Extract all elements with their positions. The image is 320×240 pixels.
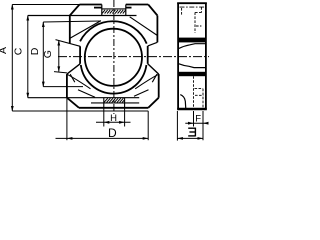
- dimension G line: [58, 41, 60, 72]
- left notch vertex stub: [70, 74, 75, 82]
- side view top dash-dot line: [180, 6, 206, 8]
- svg-text:F: F: [195, 114, 201, 125]
- side view bottom edge: [177, 108, 207, 110]
- svg-text:D: D: [108, 126, 117, 140]
- top slot plug ledge left: [94, 7, 102, 9]
- dimension D line: [42, 22, 44, 87]
- arrow D top: [42, 22, 45, 28]
- horizontal centerline: [58, 56, 209, 58]
- side view hidden slot bottom horizontal: [195, 88, 203, 90]
- bottom slot left wall: [103, 98, 105, 108]
- side view hidden slot top right vertical: [200, 7, 202, 13]
- arrow G bottom: [57, 66, 60, 72]
- bottom width arrow right: [143, 137, 149, 140]
- inner corner line bottom-left: [67, 74, 91, 89]
- top slot plug top: [102, 8, 126, 10]
- housing outline top flat right: [126, 4, 148, 6]
- side view hidden slot bottom left vertical: [193, 76, 195, 108]
- body top line with C top connector: [28, 15, 137, 17]
- dimension C line: [27, 16, 29, 98]
- bottom slot right wall: [124, 98, 126, 108]
- side view hidden slot top vertical: [194, 12, 196, 33]
- right notch diagonal: [148, 64, 159, 74]
- side view right edge: [205, 3, 207, 110]
- F arrow right: [203, 122, 209, 125]
- right notch vertex stub: [152, 74, 157, 82]
- left edge upper: [69, 16, 71, 44]
- right edge lower: [158, 74, 160, 98]
- left notch wall: [79, 46, 81, 64]
- side view upper band: [178, 38, 206, 43]
- svg-text:G: G: [42, 50, 54, 58]
- svg-text:A: A: [0, 47, 9, 54]
- bottom width extension right: [147, 111, 149, 140]
- H arrow right: [119, 121, 125, 124]
- label side width glyph: [188, 128, 195, 137]
- svg-text:H: H: [110, 113, 117, 124]
- right notch step: [148, 42, 158, 46]
- bottom-left chamfer: [67, 98, 79, 108]
- right notch wall: [147, 46, 149, 64]
- bottom slot hatch: [104, 98, 125, 102]
- bottom boss ledge: [91, 102, 139, 104]
- inner corner line bottom-right second: [134, 90, 149, 97]
- arrow D bottom: [42, 82, 45, 88]
- right edge upper: [156, 16, 158, 43]
- top-left chamfer: [70, 5, 80, 16]
- bottom width arrow left: [67, 137, 73, 140]
- vertical centerline: [113, 0, 115, 114]
- insert outer sphere arc lower: [81, 65, 147, 94]
- bottom width extension left: [66, 98, 68, 141]
- side view hidden tick: [196, 25, 201, 27]
- H dimension line: [96, 121, 131, 123]
- inner corner line top-left: [69, 21, 101, 39]
- side width arrow right: [198, 137, 204, 140]
- side view hidden slot bottom right vertical: [202, 89, 204, 109]
- bottom width dimension line: [56, 137, 149, 139]
- inner corner line bottom-right: [135, 74, 159, 89]
- bottom flat: [79, 107, 148, 109]
- side view top edge: [177, 2, 207, 4]
- side view width dimension line: [177, 137, 203, 139]
- bottom-right chamfer: [148, 98, 159, 108]
- dimension A top connector: [12, 4, 79, 6]
- side view bottom-left curve: [180, 95, 186, 109]
- dimension D bottom connector: [43, 86, 83, 88]
- dimension A bottom connector: [12, 110, 148, 112]
- bore circle: [85, 29, 142, 86]
- top-right chamfer: [148, 5, 157, 16]
- F arrow left: [188, 122, 194, 125]
- F extension right: [202, 111, 204, 140]
- top slot hatch: [102, 10, 126, 14]
- left notch diagonal: [67, 64, 80, 74]
- side view: [177, 3, 207, 110]
- arrow C bottom: [26, 93, 29, 99]
- inner corner line bottom-left second: [78, 90, 95, 98]
- side view hidden slot bottom horizontal 2: [195, 94, 203, 96]
- insert outer sphere arc upper: [80, 21, 147, 43]
- dimension D top connector: [43, 21, 101, 22]
- left notch step with G top connector: [56, 40, 81, 47]
- top slot plug ledge right: [126, 7, 132, 9]
- arrow A top: [11, 4, 14, 10]
- F extension left: [193, 111, 195, 127]
- H extension left: [103, 108, 105, 127]
- svg-text:C: C: [13, 47, 25, 55]
- inner corner line top-right: [130, 17, 158, 36]
- side view lower band: [178, 72, 206, 76]
- side width arrow left: [177, 137, 183, 140]
- top slot right wall: [125, 5, 127, 16]
- H extension right: [124, 108, 126, 127]
- H arrow left: [104, 121, 110, 124]
- F dimension line: [185, 122, 208, 124]
- side view left edge: [177, 3, 179, 110]
- body bottom line with C bottom connector: [28, 97, 139, 99]
- dimension A line: [11, 5, 13, 112]
- arrow A bottom: [11, 106, 14, 112]
- side view top-left hidden stub: [181, 8, 183, 15]
- arrow C top: [26, 15, 29, 21]
- side view upper seat curve: [179, 44, 206, 49]
- housing outline top flat left: [80, 4, 102, 6]
- side view hidden slot top horizontal: [195, 12, 201, 14]
- arrow G top: [57, 40, 60, 46]
- side view lower seat curve: [179, 64, 206, 68]
- side view width extension left: [176, 111, 178, 141]
- left edge lower: [66, 74, 68, 98]
- dimension G bottom connector: [54, 72, 67, 73]
- top slot left wall: [101, 5, 103, 16]
- svg-text:D: D: [29, 47, 41, 55]
